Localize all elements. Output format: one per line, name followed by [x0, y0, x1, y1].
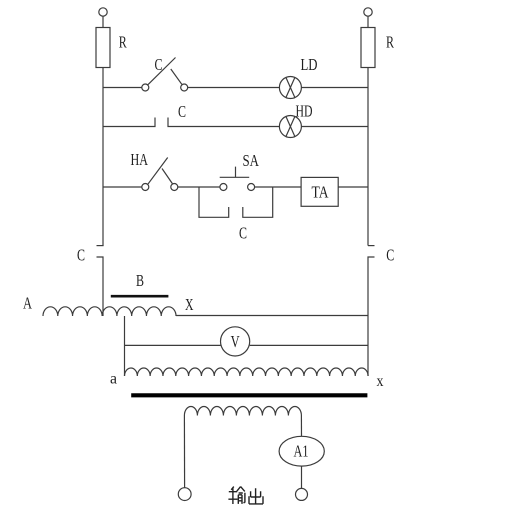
wire left bus upper: [102, 68, 104, 246]
contact C4 left-bus upper tick: [97, 245, 104, 247]
wire top-left terminal to R: [102, 16, 104, 27]
svg-text:A: A: [23, 294, 33, 313]
switch HA contact circle right: [171, 184, 178, 191]
pushbutton SA circle left: [220, 184, 227, 191]
wire row3 middle2: [255, 186, 302, 188]
transformer core bar: [131, 393, 367, 397]
wire ammeter to terminal: [301, 466, 303, 488]
svg-text:LD: LD: [301, 55, 318, 74]
svg-text:C: C: [386, 246, 394, 265]
brush bar B: [111, 295, 169, 298]
svg-text:R: R: [386, 33, 394, 52]
contact C5 right-bus lower tick: [368, 257, 375, 376]
contact C3 parallel branch left: [199, 187, 229, 217]
wire row2 right: [301, 126, 368, 128]
switch C blade: [148, 58, 176, 85]
svg-text:C: C: [155, 55, 163, 74]
wire row1 middle: [188, 87, 280, 89]
svg-text:x: x: [377, 373, 384, 390]
wire row3 right: [338, 186, 368, 188]
winding a-x: [125, 368, 369, 376]
contact C5 right-bus upper tick: [368, 245, 375, 247]
terminal output right: [296, 488, 308, 500]
relay box TA: [301, 177, 338, 206]
label output 输出: [228, 487, 263, 504]
svg-text:C: C: [178, 102, 186, 121]
svg-text:R: R: [119, 33, 127, 52]
svg-text:A1: A1: [294, 442, 309, 461]
terminal top-left: [99, 8, 107, 16]
winding A-X: [43, 307, 176, 316]
wire secondary right lead upper: [300, 416, 302, 437]
svg-text:B: B: [136, 271, 144, 290]
pushbutton SA actuator: [220, 167, 250, 178]
wire tap down: [124, 316, 126, 376]
switch HA contact circle left: [142, 184, 149, 191]
wire X to right bus: [176, 315, 368, 317]
svg-text:V: V: [231, 332, 241, 351]
svg-text:HD: HD: [296, 101, 313, 120]
wire secondary left lead: [183, 416, 185, 488]
switch C jaw: [171, 69, 182, 84]
resistor R2: [361, 28, 375, 68]
resistor R1: [96, 28, 110, 68]
wire row1 left: [103, 87, 142, 89]
wire voltmeter line left: [125, 344, 221, 346]
switch HA jaw: [162, 169, 172, 184]
terminal top-right: [364, 8, 372, 16]
terminal output left: [178, 488, 191, 501]
voltmeter V: [221, 327, 250, 356]
contact C3 parallel branch right: [243, 187, 273, 217]
wire row3 left: [103, 186, 142, 188]
contact C2 right hook: [168, 118, 279, 127]
svg-text:SA: SA: [243, 151, 260, 170]
switch C contact circle left: [142, 84, 149, 91]
switch C contact circle right: [181, 84, 188, 91]
switch HA blade: [148, 158, 168, 185]
svg-text:C: C: [77, 246, 85, 265]
contact C4 left-bus lower tick: [97, 257, 104, 316]
svg-text:HA: HA: [131, 150, 149, 169]
svg-text:a: a: [110, 371, 117, 388]
pushbutton SA circle right: [248, 184, 255, 191]
secondary winding: [184, 407, 301, 416]
wire voltmeter line right: [250, 344, 368, 346]
wire row1 right: [301, 87, 368, 89]
svg-text:X: X: [185, 295, 194, 314]
svg-text:C: C: [239, 224, 247, 243]
lamp HD: [279, 116, 301, 138]
lamp LD: [279, 77, 301, 99]
wire right bus upper: [367, 68, 369, 246]
ammeter A1: [279, 436, 324, 466]
wire top-right terminal to R: [367, 16, 369, 27]
wire row3 middle1: [178, 186, 220, 188]
contact C2 left hook: [103, 118, 155, 127]
svg-text:TA: TA: [312, 182, 330, 201]
